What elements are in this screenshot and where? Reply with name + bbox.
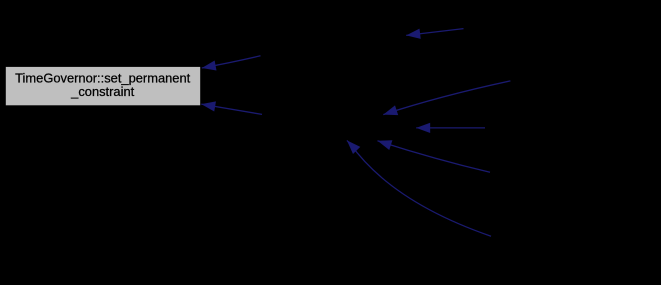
caller edge A (upper arrow into box top-right corner) <box>202 56 261 68</box>
caller edge C (top middle arrow) <box>406 29 463 36</box>
caller edge E (short horizontal arrow) <box>416 127 485 129</box>
caller edge B (lower arrow into box bottom-right corner) <box>201 104 262 114</box>
caller edge F (diagonal arrow from lower right) <box>378 141 491 173</box>
caller edge G (curved arrow from bottom right) <box>347 140 491 236</box>
node box: TimeGovernor::set_permanent_constraint <box>6 67 200 105</box>
svg-text:_constraint: _constraint <box>70 84 134 99</box>
caller edge D (long diagonal arrow from upper right) <box>383 81 510 115</box>
